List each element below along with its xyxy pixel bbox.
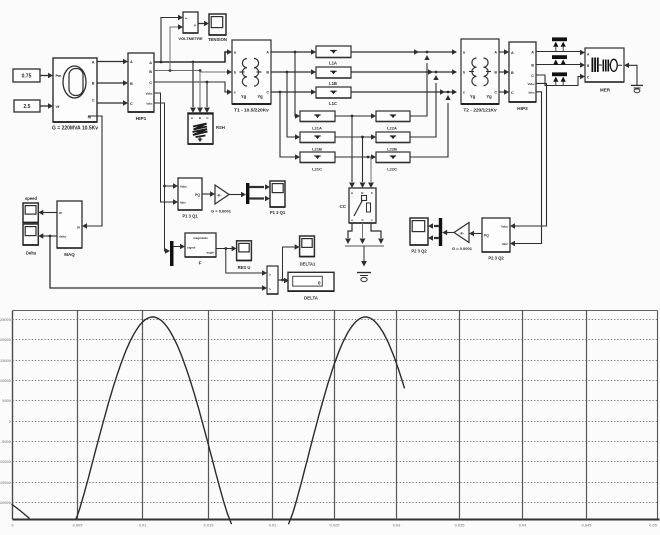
svg-text:A: A [531,50,534,54]
svg-text:-K-: -K- [460,232,464,236]
svg-text:Yg: Yg [241,94,247,99]
svg-text:C: C [266,91,269,95]
generator G = 220MVA 10.5kV (synchronous machine) [53,58,97,122]
svg-text:0.035: 0.035 [454,523,465,528]
arrester DPC phase C [552,72,567,76]
wire T1 A to L1A [271,51,311,53]
scope RES U [237,241,252,261]
svg-text:A: A [149,61,152,65]
svg-text:0.04: 0.04 [519,523,528,528]
wire L22C output up to phase C junction [410,103,448,157]
svg-text:MAQ: MAQ [64,252,75,257]
wire phase A tap to voltmeter [161,18,178,63]
svg-text:>: > [269,273,271,277]
svg-text:RES U: RES U [238,265,251,270]
svg-text:Iabc: Iabc [180,201,186,205]
wire fault tap B to CC [362,137,364,182]
wire phase C bus HIP1 to T1 [154,82,228,92]
wire CC c to ground bus [371,223,381,238]
wire ground bus to earth [363,246,365,261]
svg-text:0.025: 0.025 [329,523,340,528]
svg-text:Vabc: Vabc [180,185,187,189]
wire CC a to ground bus [348,223,352,238]
demux bar before F [170,241,174,266]
wire phase A tap to RSH [192,62,194,107]
wire phase B bus HIP1 to T1 [154,71,228,73]
wire gain G1 to demux [229,194,241,196]
svg-text:T2 - 220/121Kv: T2 - 220/121Kv [463,108,497,114]
svg-text:Iabc: Iabc [146,102,152,106]
horizontal gridline 3 [13,360,658,362]
svg-text:0.05: 0.05 [649,523,658,528]
svg-text:20000: 20000 [0,337,12,342]
svg-text:Vabc: Vabc [501,225,508,229]
svg-text:T1 - 10.5/220Kv: T1 - 10.5/220Kv [234,108,269,114]
transmission line block L1B [316,67,351,78]
svg-text:Delta: Delta [26,251,37,256]
transformer T2 220/121kV [461,39,499,104]
svg-text:-15000: -15000 [0,480,12,485]
svg-text:P2 3 Q2: P2 3 Q2 [488,256,504,261]
svg-text:Yg: Yg [470,94,476,99]
svg-text:DELTA1: DELTA1 [300,262,316,267]
svg-text:L21A: L21A [312,126,322,131]
svg-text:Iabc: Iabc [502,242,508,246]
scope P1 3 Q1 [270,181,285,207]
svg-text:-10000: -10000 [0,459,12,464]
svg-text:Vabc: Vabc [145,92,152,96]
svg-text:CC: CC [340,204,347,209]
svg-text:10000: 10000 [0,378,12,383]
svg-text:L21B: L21B [312,147,322,152]
svg-text:C: C [130,102,133,106]
wire HIP2 Vabc to P23Q2 [515,83,547,226]
wire phase B tap to voltmeter [170,27,178,71]
wire L1C output to T2 c [351,91,456,93]
wire phase B tap to RSH [199,71,201,108]
svg-text:C: C [511,91,514,95]
svg-text:RSH: RSH [216,125,225,130]
svg-text:Yg: Yg [257,94,263,99]
svg-text:-5000: -5000 [1,439,12,444]
svg-text:L22C: L22C [387,167,397,172]
wire L1B output to T2 b [351,71,456,73]
svg-text:L1A: L1A [329,61,337,66]
wire generator A to HIP1 A [97,61,123,63]
svg-text:L22B: L22B [387,147,397,152]
scope TENSION [209,14,226,35]
svg-text:C: C [531,74,534,78]
wire mux to DELTA display [278,279,285,281]
svg-text:Yg: Yg [486,94,492,99]
wire tap up to DELTA1 scope [283,247,295,280]
three-phase fault block CC [349,188,376,223]
svg-text:B: B [130,82,133,86]
svg-text:0.005: 0.005 [72,523,83,528]
wire HIP1 Vabc down to P13Q1 Iabc [154,93,174,202]
vertical gridline 2 [142,311,144,520]
svg-text:0.03: 0.03 [393,523,402,528]
arrester DPB phase B [552,55,567,59]
horizontal gridline 8 [13,461,658,463]
svg-text:w: w [58,211,62,215]
gain block G2 [454,223,469,243]
wire HIP2 Iabc to P23Q2 [515,92,542,244]
wire P23Q2 to gain G2 [474,233,482,235]
wire generator C to HIP1 C [97,102,123,104]
wire demux to scope P13Q1 (Q) [249,197,264,199]
svg-text:L1B: L1B [329,81,337,86]
wire HIP2 C to MER C [536,75,581,86]
svg-text:A: A [130,60,133,64]
wire T1 C to L1C [271,91,311,93]
wire generator B to HIP1 B [97,82,123,84]
svg-text:0.01: 0.01 [139,523,148,528]
power measurement block P1 3 Q1 [178,178,202,210]
transmission line block L21B [300,132,335,143]
svg-text:5000: 5000 [2,398,12,403]
svg-text:0: 0 [318,281,321,287]
horizontal gridline 2 [13,339,658,341]
wire voltmeter to tension scope [198,23,204,25]
vertical gridline 7 [459,311,461,520]
wire phase A bus HIP1 to T1 [154,52,228,62]
horizontal gridline 1 [13,319,658,321]
transmission line block L22B [376,132,410,143]
measurement block HIP1 [128,53,154,112]
gain block G1 [215,185,229,204]
transformer T1 10.5/220kV [232,40,271,104]
svg-text:0.045: 0.045 [581,523,592,528]
demux bar P2Q2 [439,218,442,246]
horizontal gridline 9 [13,482,658,484]
svg-text:F: F [199,261,202,266]
wire L21A to L22A [335,115,371,117]
wire demux to scope P23Q2 (P) [434,225,439,227]
curve tail of previous hump [12,504,30,519]
svg-text:G = 220MVA 10.5Kv: G = 220MVA 10.5Kv [52,126,98,132]
svg-text:Pm: Pm [56,74,63,78]
wire demux to scope P13Q1 (P) [249,186,264,188]
svg-text:P1 3 Q1: P1 3 Q1 [270,210,286,215]
svg-text:0.02: 0.02 [269,523,278,528]
wire F angle to DELTA mux [226,249,262,274]
svg-text:P1 3 Q1: P1 3 Q1 [182,214,198,219]
svg-text:TENSION: TENSION [208,37,227,42]
svg-text:B: B [511,71,514,75]
ground symbol right of MER [631,84,643,86]
wire MAQ delta to Delta scope [43,235,57,237]
svg-text:A: A [266,51,269,55]
wire delta to DELTA mux [50,236,262,288]
horizontal gridline 7 [13,441,658,443]
wire constant 0.75 to generator Pm [40,75,49,77]
vertical gridline 1 [77,311,79,520]
scope P2 3 Q2 [410,218,428,245]
svg-text:B: B [92,82,95,86]
fourier block F [185,233,216,257]
svg-text:B: B [494,71,497,75]
wire generator m output to MAQ [87,116,102,226]
svg-text:2.5: 2.5 [24,104,31,110]
wire HIP2 B to MER B [536,64,580,66]
svg-text:Iabc: Iabc [528,91,534,95]
wire T1 B to L1B [271,71,311,73]
transmission line block L22A [376,111,410,122]
svg-text:L1C: L1C [329,101,337,106]
svg-text:speed: speed [25,196,38,201]
wire phase B tap to L21B [287,72,296,137]
svg-text:+: + [185,17,187,21]
svg-text:C: C [149,81,152,85]
scope Delta [23,224,38,245]
svg-text:HIP2: HIP2 [517,106,528,112]
ground symbol below CC [357,272,371,274]
transmission line block L21A [300,111,335,122]
wire L22B output up to phase B junction [410,83,436,137]
horizontal gridline 10 [13,502,658,504]
svg-text:PQ: PQ [484,234,489,238]
transmission line block L22C [376,152,410,163]
demux bar P1Q1 [246,183,249,204]
horizontal gridline 4 [13,380,658,382]
wire F to RES U scope [216,248,232,250]
voltmeter block VOLTMETRE [183,12,198,33]
svg-text:25000: 25000 [0,317,12,322]
svg-text:HIP1: HIP1 [136,116,147,122]
svg-text:C: C [494,91,497,95]
svg-text:delta: delta [59,235,66,239]
wire CC b to ground bus [362,223,364,238]
svg-text:0.015: 0.015 [203,523,214,528]
svg-text:magnitude: magnitude [193,236,208,240]
wire P13Q1 to gain G1 [202,193,210,195]
vertical gridline 4 [272,311,274,520]
svg-text:15000: 15000 [0,358,12,363]
svg-text:P2 3 Q2: P2 3 Q2 [411,249,427,254]
constant block 0.75 (Pm reference) [13,69,40,82]
power measurement block P2 3 Q2 [482,218,510,252]
display block DELTA [288,272,334,291]
wire HIP1 Iabc down to P13Q1 Vabc and F [154,103,166,251]
svg-text:L22A: L22A [387,126,397,131]
svg-text:signal: signal [187,246,196,250]
svg-text:L21C: L21C [312,167,322,172]
svg-text:A: A [92,61,95,65]
svg-text:B: B [149,70,152,74]
wire L21B to L22B [335,136,371,138]
svg-text:A: A [511,51,514,55]
svg-text:MER: MER [600,88,611,93]
vertical gridline 3 [208,311,210,520]
vertical gridline 8 [522,311,524,520]
plot frame [13,310,658,312]
svg-text:VOLTMETRE: VOLTMETRE [178,36,203,41]
svg-text:c: c [463,91,465,95]
horizontal gridline 6 [13,421,658,423]
wire ground to MER neutral [624,63,629,68]
wire MAQ w to speed scope [43,212,57,214]
mux block for DELTA [267,266,278,294]
svg-text:G = 0.0001: G = 0.0001 [211,209,232,214]
wire T2 B to HIP2 B [499,71,504,73]
vertical gridline 9 [586,311,588,520]
wire T2 C to HIP2 C [499,91,504,93]
arrester DPA phase A [552,37,567,41]
wire phase C tap to RSH [206,82,208,107]
svg-text:Vabc: Vabc [527,82,534,86]
curve hump 1 [76,317,232,524]
load machine block MER [585,48,624,82]
svg-text:C: C [92,99,95,103]
svg-text:G = 0.0001: G = 0.0001 [452,246,473,251]
shunt load block RSH [188,113,213,144]
wire demux to scope P23Q2 (Q) [434,237,439,239]
svg-text:-K-: -K- [217,194,221,198]
svg-text:B: B [531,63,534,67]
wire HIP2 A to MER A [536,51,580,53]
svg-text:m: m [77,226,80,230]
wire phase A tap to L21A [295,52,296,116]
svg-text:angle: angle [206,251,214,255]
svg-text:0.75: 0.75 [22,74,32,80]
wire L22A output up to phase A junction [410,63,427,116]
wire L1A output to T2 a [351,51,456,53]
svg-text:b: b [362,218,364,222]
wire fault tap A to CC [351,116,353,182]
vertical gridline 5 [334,311,336,520]
svg-text:-20000: -20000 [0,500,12,505]
wire phase C tap to L21C [280,92,296,157]
vertical gridline 6 [396,311,398,520]
svg-text:c: c [234,91,236,95]
scope DELTA1 [300,236,315,257]
horizontal gridline 5 [13,400,658,402]
wire T2 A to HIP2 A [499,51,504,53]
transmission line block L21C [300,152,335,163]
transmission line block L1A [316,46,351,58]
wire gain G2 to demux [447,232,454,234]
curve hump 2 [289,317,405,524]
svg-text:B: B [266,71,269,75]
svg-text:DELTA: DELTA [304,296,319,301]
transmission line block L1C [316,87,351,98]
wire L21C to L22C [335,156,371,158]
measurement block HIP2 [509,42,536,102]
wire constant 2.5 to generator Vf [40,105,49,107]
svg-text:A: A [494,51,497,55]
svg-text:PQ: PQ [195,193,200,197]
machine measurement block MAQ [57,201,82,248]
ground bus bar [345,245,384,247]
svg-text:>: > [269,288,271,292]
wire fault tap C to CC [368,156,371,158]
constant block 2.5 (Vf excitation) [14,100,40,112]
